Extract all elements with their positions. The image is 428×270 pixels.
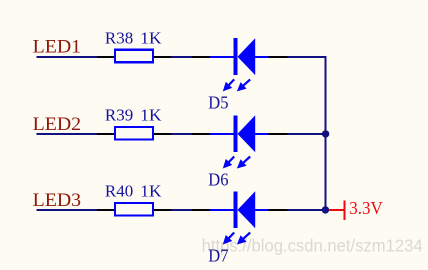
LED D7 pin cathode: [192, 209, 210, 211]
junction dot row 2: [322, 130, 329, 137]
LED D5 anode lead line: [255, 56, 268, 58]
svg-text:R40: R40: [105, 182, 133, 201]
LED D5 cathode bar: [233, 38, 237, 75]
resistor R39 body: [115, 127, 153, 139]
svg-text:https://blog.csdn.net/szm1234: https://blog.csdn.net/szm1234: [202, 236, 423, 256]
LED D6 emission arrow 1: [228, 157, 235, 164]
svg-text:D7: D7: [208, 246, 228, 266]
LED D7 anode lead line: [255, 209, 268, 211]
wire R39 to D6: [171, 133, 192, 135]
wire LED3 net segment left: [37, 209, 98, 211]
svg-text:1K: 1K: [140, 182, 162, 201]
LED D6 anode triangle: [238, 115, 256, 152]
svg-text:LED3: LED3: [33, 191, 82, 211]
LED D5 pin anode: [269, 56, 288, 58]
LED D6 emission arrow 2: [242, 157, 250, 164]
resistor R40 pin 2: [154, 209, 171, 211]
wire LED2 net segment left: [37, 133, 98, 135]
svg-text:1K: 1K: [140, 29, 162, 48]
junction dot row 3: [322, 206, 329, 213]
power port 3.3V stem: [329, 209, 344, 211]
LED D7 emission arrow 1: [228, 233, 235, 240]
LED D7 cathode bar: [233, 191, 237, 228]
LED D6 cathode bar: [233, 115, 237, 152]
LED D6 pin cathode: [192, 133, 210, 135]
LED D6 anode lead line: [255, 133, 268, 135]
LED D7 anode triangle: [238, 191, 256, 228]
LED D6 pin anode: [269, 133, 288, 135]
wire D6 to 3.3V bus: [288, 133, 326, 135]
svg-text:R39: R39: [105, 106, 133, 125]
resistor R39 pin 2: [154, 133, 171, 135]
power port 3.3V bar: [344, 201, 346, 221]
wire D7 to 3.3V bus: [288, 209, 326, 211]
resistor R38 pin 1: [97, 56, 114, 58]
LED D5 pin cathode: [192, 56, 210, 58]
svg-text:D6: D6: [208, 170, 228, 190]
LED D7 pin anode: [269, 209, 288, 211]
svg-text:LED2: LED2: [33, 115, 82, 135]
resistor R40 pin 1: [97, 209, 114, 211]
LED D7 emission arrow 2: [242, 233, 250, 240]
resistor R38 pin 2: [154, 56, 171, 58]
svg-text:LED1: LED1: [33, 38, 82, 58]
LED D7 cathode lead line: [210, 209, 234, 211]
LED D5 emission arrow 2: [242, 79, 250, 86]
svg-text:1K: 1K: [140, 106, 162, 125]
wire LED1 net segment left: [37, 56, 98, 58]
wire R40 to D7: [171, 209, 192, 211]
resistor R40 body: [115, 203, 153, 216]
wire R38 to D5: [171, 56, 192, 58]
resistor R38 body: [115, 50, 153, 63]
svg-text:R38: R38: [105, 29, 133, 48]
LED D5 anode triangle: [238, 38, 256, 75]
svg-text:3.3V: 3.3V: [349, 198, 383, 218]
LED D5 emission arrow 1: [228, 79, 235, 86]
svg-text:D5: D5: [208, 93, 228, 113]
LED D5 cathode lead line: [210, 56, 234, 58]
wire 3.3V vertical bus: [325, 56, 327, 211]
resistor R39 pin 1: [97, 133, 114, 135]
wire D5 to 3.3V bus: [288, 56, 327, 58]
LED D6 cathode lead line: [210, 133, 234, 135]
